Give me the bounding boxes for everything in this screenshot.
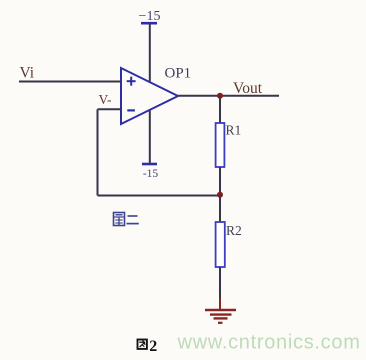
svg-text:www.cntronics.com: www.cntronics.com	[177, 332, 361, 354]
wire node to R2	[219, 195, 221, 222]
svg-text:2: 2	[149, 338, 157, 355]
resistor R2	[216, 222, 225, 267]
svg-text:R2: R2	[226, 223, 242, 238]
wire supply bottom	[149, 110, 151, 164]
junction output node	[217, 93, 223, 99]
junction feedback node	[217, 192, 223, 198]
op-amp OP1	[121, 68, 178, 124]
svg-text:-15: -15	[143, 168, 159, 180]
svg-text:−15: −15	[139, 9, 161, 24]
svg-text:OP1: OP1	[165, 66, 192, 82]
ground	[205, 298, 236, 323]
caption 图2 (drawn glyph + numeral)	[138, 338, 158, 355]
svg-text:V-: V-	[99, 92, 113, 107]
wire feedback bottom horizontal	[98, 195, 221, 197]
wire top supply	[149, 23, 151, 82]
power symbol -15 (bottom)	[142, 164, 158, 180]
svg-text:Vout: Vout	[233, 80, 263, 97]
svg-text:R1: R1	[226, 123, 242, 138]
wire R2 to ground	[219, 267, 221, 301]
resistor R1	[216, 123, 225, 167]
wire Vi to + input	[19, 81, 121, 83]
wire feedback left vertical	[97, 109, 99, 195]
wire output node to R1	[219, 96, 221, 123]
wire R1 to feedback node	[219, 167, 221, 196]
label 圖二 (figure two, drawn glyphs)	[114, 213, 139, 226]
wire feedback to - input	[98, 108, 122, 110]
power symbol -15 (top)	[139, 9, 161, 24]
wire output	[178, 95, 279, 97]
svg-text:Vi: Vi	[20, 64, 35, 81]
